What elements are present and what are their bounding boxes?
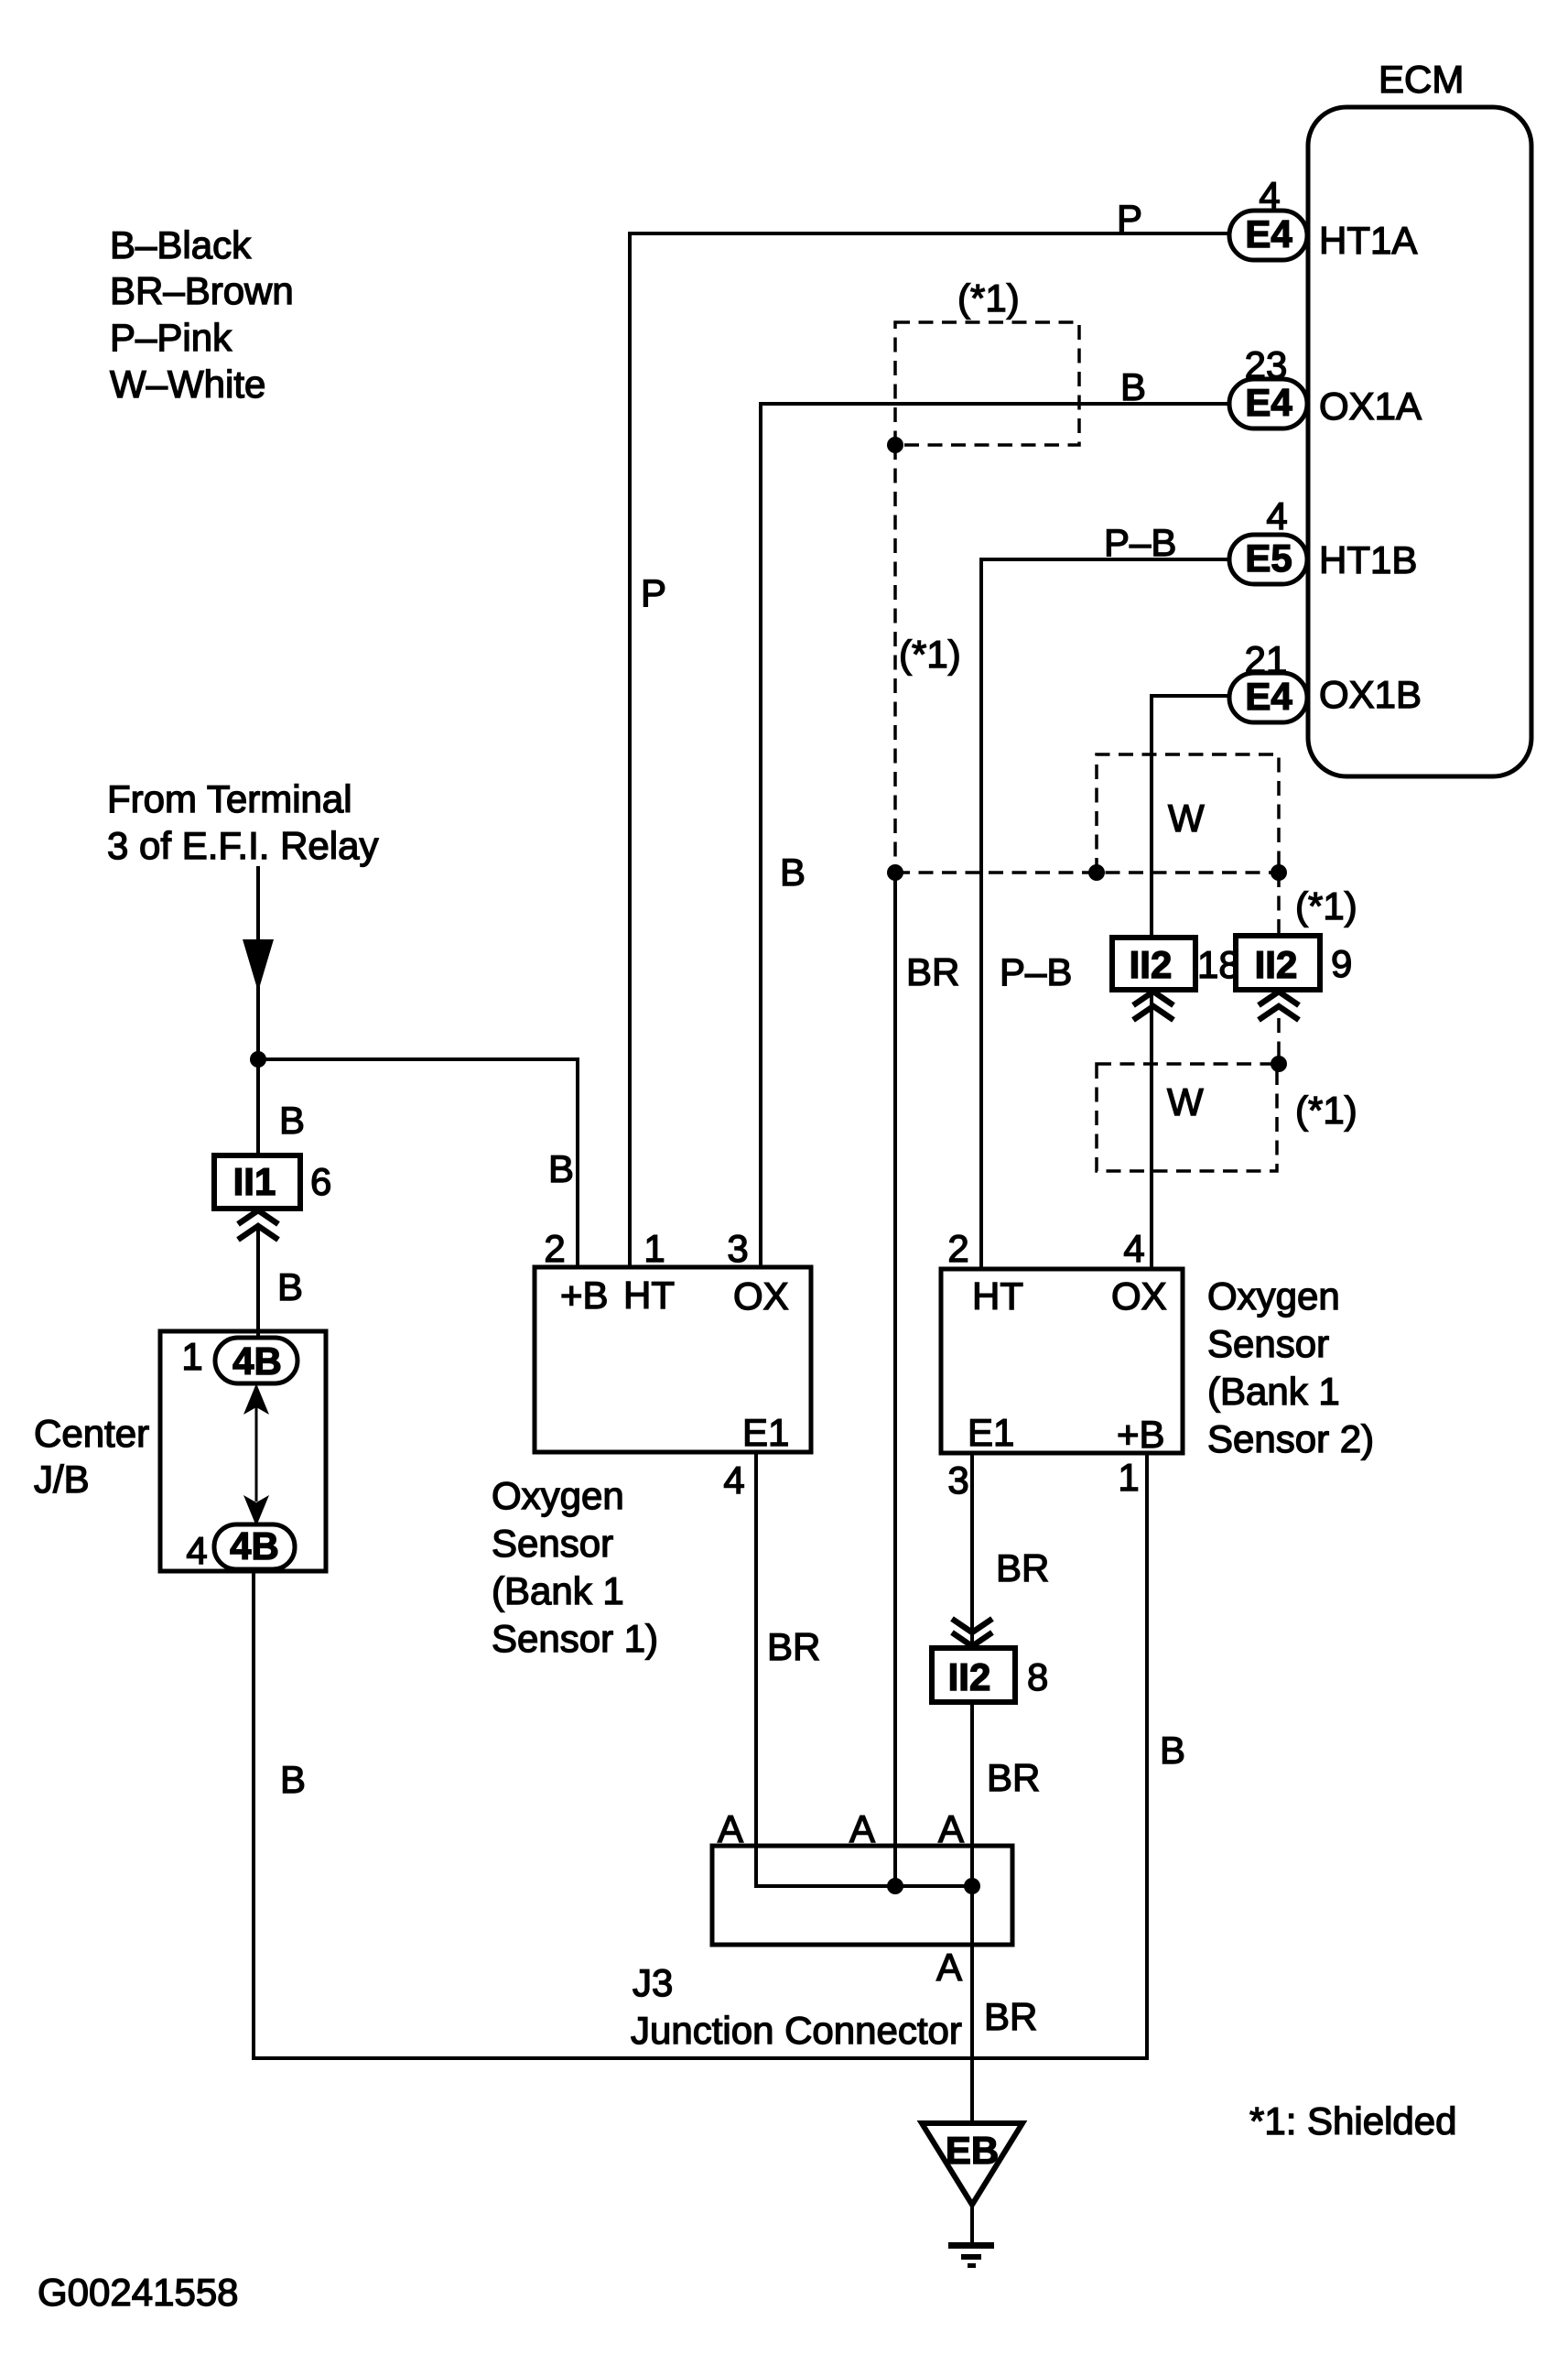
- svg-text:J3: J3: [633, 1961, 673, 2004]
- arrow up inside Center J/B: [243, 1383, 269, 1415]
- svg-text:B: B: [548, 1147, 574, 1190]
- Center J/B label: [34, 1412, 149, 1501]
- svg-text:(Bank 1: (Bank 1: [492, 1569, 624, 1612]
- connector chevrons II2 9: [1259, 992, 1299, 1005]
- connector E4 pin 23 OX1A: [1229, 379, 1307, 428]
- wire P-B from ECM HT1B to oxygen sensor 2 HT pin 2: [981, 559, 1229, 1267]
- svg-text:21: 21: [1245, 638, 1288, 681]
- svg-text:Sensor 2): Sensor 2): [1207, 1417, 1374, 1460]
- svg-text:1: 1: [1118, 1456, 1139, 1499]
- svg-text:BR: BR: [996, 1546, 1049, 1589]
- junction dot J3 bus BR drain: [887, 1878, 903, 1894]
- svg-text:OX1B: OX1B: [1319, 673, 1422, 716]
- svg-text:B: B: [1160, 1729, 1185, 1772]
- svg-text:3: 3: [947, 1459, 968, 1502]
- connector II2 pin 9: [1236, 936, 1320, 990]
- shield dashed drain segment (*1): [893, 445, 897, 873]
- svg-text:Sensor: Sensor: [1207, 1322, 1329, 1365]
- J3 junction connector box: [712, 1846, 1012, 1945]
- junction dot shield bus middle: [1088, 864, 1105, 881]
- wire B from ECM OX1A to oxygen sensor 1 OX pin 3: [761, 404, 1229, 1267]
- svg-text:B: B: [277, 1265, 303, 1308]
- oxygen sensor 1 box: [535, 1267, 811, 1452]
- wire B from II1 to Center J/B pin 1: [256, 1227, 260, 1350]
- wire EB ground stub: [970, 2205, 974, 2245]
- svg-text:OX1A: OX1A: [1319, 385, 1422, 428]
- svg-text:B: B: [279, 1099, 305, 1142]
- ground bars: [948, 2242, 994, 2249]
- svg-text:P: P: [641, 571, 666, 614]
- svg-text:4: 4: [186, 1529, 207, 1572]
- connector II2 pin 8: [932, 1648, 1015, 1702]
- svg-text:23: 23: [1245, 343, 1288, 386]
- shield dashed horizontal bus: [895, 871, 1279, 874]
- svg-text:HT: HT: [623, 1274, 675, 1317]
- shield dashed segment II2 9 to lower box: [1277, 1018, 1281, 1064]
- wire BR shield drain down to J3 junction bus: [893, 873, 897, 1886]
- svg-text:3 of E.F.I. Relay: 3 of E.F.I. Relay: [107, 824, 378, 867]
- svg-text:OX: OX: [733, 1274, 789, 1318]
- wire B from E.F.I. relay down to connector II1: [256, 866, 260, 1159]
- svg-text:B: B: [1120, 365, 1146, 408]
- oxygen sensor 1 name: [492, 1474, 658, 1660]
- connector E4 pin 4 HT1A: [1229, 211, 1307, 260]
- connector E5 pin 4 HT1B: [1229, 535, 1307, 584]
- connector 4B lower: [214, 1524, 295, 1569]
- junction dot shield bus right: [1271, 864, 1287, 881]
- junction dot shield bus left: [887, 864, 903, 881]
- connector chevrons II1: [238, 1210, 278, 1224]
- internal wire Center J/B: [255, 1407, 258, 1502]
- J3 name: [631, 1961, 962, 2052]
- svg-text:E4: E4: [1245, 381, 1292, 424]
- svg-text:+B: +B: [1117, 1413, 1165, 1456]
- svg-text:From Terminal: From Terminal: [107, 777, 352, 820]
- svg-text:W–White: W–White: [110, 363, 265, 406]
- svg-text:ECM: ECM: [1379, 58, 1464, 101]
- svg-text:II2: II2: [1130, 943, 1173, 986]
- svg-text:P: P: [1117, 197, 1142, 240]
- wire BR from sensor 2 E1 pin 3 through II2 8 and J3 to EB: [970, 1453, 974, 2123]
- junction dot B branch: [250, 1051, 266, 1068]
- svg-text:B: B: [280, 1758, 306, 1801]
- svg-text:(Bank 1: (Bank 1: [1207, 1370, 1340, 1413]
- svg-text:4: 4: [723, 1459, 744, 1502]
- junction dot shield at dashed box corner: [887, 437, 903, 453]
- svg-text:P–B: P–B: [1104, 521, 1176, 564]
- wire W from ECM OX1B to oxygen sensor 2 OX pin 4: [1152, 696, 1229, 1269]
- svg-text:+B: +B: [560, 1274, 609, 1317]
- legend wire color codes: [110, 223, 294, 406]
- svg-text:OX: OX: [1111, 1274, 1167, 1318]
- connector 4B upper: [215, 1338, 297, 1383]
- svg-text:EB: EB: [946, 2129, 999, 2172]
- connector E4 pin 21 OX1B: [1229, 673, 1307, 722]
- svg-text:B–Black: B–Black: [110, 223, 252, 266]
- svg-text:E5: E5: [1245, 537, 1292, 580]
- connector II2 pin 18: [1112, 938, 1195, 990]
- svg-text:Oxygen: Oxygen: [1207, 1274, 1340, 1318]
- svg-text:E4: E4: [1245, 212, 1292, 255]
- shield dashed segment to II2 9: [1277, 873, 1281, 936]
- shield dashed box (*1) around W wire lower: [1097, 1064, 1277, 1171]
- svg-text:Oxygen: Oxygen: [492, 1474, 624, 1517]
- svg-text:4: 4: [1266, 494, 1287, 537]
- svg-text:BR: BR: [987, 1756, 1040, 1799]
- Center J/B box: [160, 1331, 326, 1571]
- svg-text:(*1): (*1): [957, 277, 1020, 320]
- svg-text:1: 1: [181, 1335, 202, 1378]
- svg-text:P–Pink: P–Pink: [110, 316, 232, 359]
- svg-text:Junction Connector: Junction Connector: [631, 2009, 962, 2052]
- wire P from ECM HT1A to oxygen sensor 1 HT pin 1: [630, 233, 1229, 1267]
- wire B branch to oxygen sensor 1 +B pin 2: [258, 1059, 578, 1267]
- svg-text:E1: E1: [742, 1411, 789, 1454]
- svg-text:9: 9: [1331, 942, 1352, 985]
- connector chevrons II2 8: [952, 1619, 992, 1632]
- svg-text:II2: II2: [1255, 943, 1298, 986]
- svg-text:3: 3: [727, 1227, 748, 1270]
- svg-text:HT: HT: [972, 1274, 1023, 1318]
- svg-text:4: 4: [1259, 174, 1280, 217]
- svg-text:(*1): (*1): [1295, 884, 1357, 927]
- svg-text:BR–Brown: BR–Brown: [110, 269, 294, 312]
- junction dot J3 bus BR to EB: [964, 1878, 980, 1894]
- from terminal note: [107, 777, 378, 867]
- svg-text:A: A: [936, 1946, 962, 1989]
- connector II1 pin 6: [214, 1155, 300, 1209]
- svg-text:4B: 4B: [232, 1339, 282, 1383]
- svg-text:8: 8: [1027, 1655, 1048, 1698]
- svg-text:E1: E1: [968, 1411, 1014, 1454]
- oxygen sensor 2 box: [941, 1269, 1183, 1453]
- svg-text:HT1B: HT1B: [1319, 538, 1417, 581]
- svg-text:II2: II2: [948, 1655, 991, 1698]
- svg-text:(*1): (*1): [899, 633, 961, 676]
- svg-text:II1: II1: [233, 1160, 276, 1203]
- svg-text:6: 6: [310, 1160, 331, 1203]
- wire BR from sensor 1 E1 pin 4 to J3 junction bus: [756, 1452, 972, 1886]
- svg-text:BR: BR: [984, 1995, 1037, 2038]
- svg-text:P–B: P–B: [1000, 950, 1072, 993]
- svg-text:BR: BR: [767, 1625, 820, 1668]
- svg-text:(*1): (*1): [1295, 1089, 1357, 1132]
- svg-text:4: 4: [1123, 1227, 1144, 1270]
- oxygen sensor 2 name: [1207, 1274, 1374, 1460]
- ECM box: [1308, 107, 1531, 776]
- svg-text:4B: 4B: [230, 1524, 279, 1567]
- wire B from Center J/B pin 4 along bottom up to sensor 2 +B pin 1: [254, 1453, 1147, 2058]
- svg-text:Sensor 1): Sensor 1): [492, 1617, 658, 1660]
- svg-text:2: 2: [947, 1227, 968, 1270]
- svg-text:B: B: [780, 851, 806, 894]
- svg-text:W: W: [1168, 797, 1205, 840]
- flow arrow on B wire: [243, 939, 274, 992]
- svg-text:W: W: [1167, 1080, 1204, 1123]
- ground EB triangle: [922, 2123, 1022, 2205]
- connector chevrons II2 18: [1133, 992, 1173, 1005]
- svg-text:J/B: J/B: [34, 1458, 90, 1501]
- svg-text:*1: Shielded: *1: Shielded: [1249, 2099, 1457, 2142]
- svg-text:Center: Center: [34, 1412, 149, 1455]
- svg-text:E4: E4: [1245, 675, 1292, 718]
- junction dot shield lower box: [1271, 1056, 1287, 1072]
- arrow down inside Center J/B: [243, 1495, 269, 1526]
- svg-text:HT1A: HT1A: [1319, 219, 1417, 262]
- svg-text:1: 1: [643, 1227, 665, 1270]
- svg-text:2: 2: [544, 1227, 565, 1270]
- svg-text:BR: BR: [906, 950, 959, 993]
- shield dashed box (*1) on B wire near OX1A: [895, 322, 1079, 445]
- svg-text:G00241558: G00241558: [38, 2271, 239, 2314]
- svg-text:Sensor: Sensor: [492, 1522, 613, 1565]
- shield dashed box (*1) around W wire upper: [1097, 754, 1279, 873]
